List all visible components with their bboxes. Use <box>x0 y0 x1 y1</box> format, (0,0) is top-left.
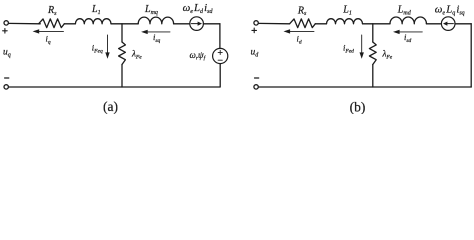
wire L1 to Lmq through node <box>111 23 138 25</box>
current arrow isd (b) <box>399 31 422 33</box>
terminal bottom-left (a) <box>4 85 8 89</box>
shunt branch upper wire (a) <box>121 24 123 42</box>
svg-text:L1: L1 <box>342 5 352 17</box>
right branch wire (b) <box>470 24 472 87</box>
wire source to top-right corner (b) <box>455 23 471 25</box>
iron-loss element lambda_Fe (a) <box>119 42 126 65</box>
wire top-left to resistor (b) <box>258 22 289 24</box>
svg-text:iFeq: iFeq <box>92 43 103 55</box>
terminal top-left (a) <box>4 21 8 25</box>
resistor Rs (b) <box>290 19 316 28</box>
svg-text:ud: ud <box>251 48 260 59</box>
svg-text:Rs: Rs <box>47 5 57 17</box>
iron-loss element lambda_Fe (b) <box>369 42 376 65</box>
dependent source we*Ld*isd (a) <box>190 17 204 31</box>
wire L1 to Lmd through node (b) <box>363 23 391 25</box>
svg-text:ωeLdisd: ωeLdisd <box>183 2 214 15</box>
svg-text:iq: iq <box>46 33 51 45</box>
svg-text:Lmd: Lmd <box>397 5 412 17</box>
inductor Lmq (a) <box>138 17 173 24</box>
minus sign (b) <box>255 77 259 79</box>
bottom wire (b) <box>258 86 471 88</box>
current arrow iq (a) <box>39 30 64 32</box>
svg-text:id: id <box>297 33 302 45</box>
svg-text:iFed: iFed <box>343 42 354 54</box>
shunt branch upper wire (b) <box>372 24 374 42</box>
svg-text:(b): (b) <box>350 100 366 115</box>
inductor Lmd (b) <box>390 17 426 24</box>
wire Lmq to source <box>174 23 190 25</box>
current arrow id (b) <box>289 30 314 32</box>
current arrow iFed (b) <box>361 35 363 53</box>
wire resistor to inductor L1 <box>64 23 75 25</box>
svg-text:(a): (a) <box>103 99 118 114</box>
current arrow iFeq (a) <box>107 35 109 53</box>
inductor L1 (a) <box>75 19 111 24</box>
svg-text:λFe: λFe <box>131 49 142 61</box>
svg-text:ωrψf: ωrψf <box>190 50 207 62</box>
bottom wire (a) <box>9 86 220 88</box>
terminal top-left (b) <box>254 21 258 25</box>
plus sign (a) <box>3 29 8 34</box>
current arrow isq (a) <box>147 31 170 33</box>
wire Lmd to source (b) <box>426 23 441 25</box>
right branch lower wire (a) <box>219 64 221 87</box>
minus sign (a) <box>5 77 9 79</box>
EMF source wr*psi_f (a) <box>213 48 228 63</box>
wire source to top-right corner <box>203 23 220 25</box>
wire resistor to inductor (b) <box>315 23 326 25</box>
svg-text:ωeLqisq: ωeLqisq <box>435 4 465 17</box>
svg-text:L1: L1 <box>91 4 101 16</box>
shunt branch lower wire (a) <box>121 65 123 88</box>
svg-text:Rs: Rs <box>297 5 307 17</box>
resistor Rs (a) <box>39 19 65 28</box>
terminal bottom-left (b) <box>254 85 258 89</box>
inductor L1 (b) <box>327 19 363 24</box>
wire top-left to resistor <box>9 22 41 24</box>
svg-text:isq: isq <box>153 32 161 44</box>
dependent source we*Lq*isq (b) <box>441 17 455 31</box>
shunt branch lower wire (b) <box>372 65 374 88</box>
svg-text:Lmq: Lmq <box>144 4 158 16</box>
right branch upper wire (a) <box>219 24 221 49</box>
svg-text:isd: isd <box>404 32 412 44</box>
svg-text:λFe: λFe <box>382 49 393 61</box>
plus sign (b) <box>252 28 257 33</box>
svg-text:uq: uq <box>3 48 11 59</box>
